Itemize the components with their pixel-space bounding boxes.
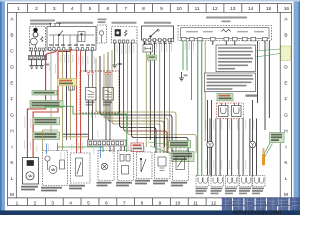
label Ra [196,188,208,195]
wire N10 pin1 to coil [144,42,146,45]
wire khaki left pair a [42,130,44,151]
note box upper [216,45,256,72]
wire code labels [24,42,267,169]
orange highlight wire [262,148,265,166]
label Re [252,188,264,195]
svg-text:E: E [10,81,13,87]
svg-text:11: 11 [195,6,200,12]
svg-text:12: 12 [211,200,217,206]
connector box Re [253,176,266,187]
svg-text:B: B [10,33,13,39]
terminal circle 43a [207,141,213,147]
svg-text:15: 15 [266,6,272,12]
N10 pin labels [143,43,172,45]
label A7-3 [153,180,168,185]
wires W02 to connector [32,51,44,55]
label Rd [239,188,251,195]
ground 31 trio [29,60,49,69]
title text hazard switch panel [206,17,247,23]
tag mid right 2 [172,152,195,162]
svg-text:L: L [11,176,14,182]
terminal circle 43b [249,141,255,147]
svg-text:L: L [285,176,288,182]
connector strip T below W02 [29,55,47,59]
svg-text:11: 11 [193,200,198,206]
cluster internal marks [186,31,264,32]
svg-text:www.qcwxjs.com: www.qcwxjs.com [232,209,281,215]
wire khaki c5 [204,41,206,142]
highlight box connector pair [217,103,244,119]
svg-text:F: F [11,97,14,103]
wire khaki left pair b [43,129,58,131]
component box W11/1 [97,25,107,43]
svg-text:8: 8 [142,6,145,12]
component box switch S1 [98,151,114,181]
svg-text:D: D [284,65,288,71]
wire green low [58,147,104,152]
W02 pin row [30,48,44,51]
labels K relays [86,102,113,106]
component box F-connector [71,153,91,183]
connector strip mid [88,140,127,146]
label F-connector [69,185,85,190]
component inline connector [69,86,74,91]
wire gray [50,51,52,141]
svg-text:14: 14 [248,6,254,12]
wire khaki straight mid [136,43,138,150]
svg-text:6: 6 [106,6,109,12]
relay K1 [86,75,97,100]
note box lower [205,73,256,92]
tag K29 red [131,143,144,152]
svg-text:2: 2 [35,6,38,12]
tag ground point note [33,132,60,139]
wire red washer 1 [27,51,56,159]
wire ladder pairs [208,100,257,176]
wire link khaki [63,136,88,138]
wire black c11 [268,41,270,118]
label P2-4 [171,182,187,187]
connector box Rc [226,176,239,187]
W11/3 pin boxes [113,40,134,43]
svg-text:3: 3 [51,200,54,206]
svg-text:10: 10 [177,6,183,12]
tag mid right 1 [169,141,191,148]
wire blue left [46,144,48,155]
wire red pair left [76,51,78,154]
wire bus black 2 [100,56,172,153]
svg-text:G: G [284,112,288,118]
tag W16 yellow [58,79,77,86]
svg-text:G: G [10,112,14,118]
plug X1 [219,103,229,117]
label W02 washer pump [30,20,55,25]
wire red washer 2 [33,49,70,158]
svg-text:3: 3 [53,6,56,12]
svg-text:1: 1 [16,200,19,206]
component box N10 [142,26,174,40]
wires N10 down [153,42,155,147]
svg-text:B: B [284,33,287,39]
wire coil down black [149,52,151,140]
wire coil down khaki [145,52,147,147]
svg-text:C: C [10,49,14,55]
wire bus black 9 [132,43,188,153]
svg-text:12: 12 [212,6,218,12]
svg-text:7: 7 [123,200,126,206]
red pin marks K [87,73,111,75]
wire link dark [63,133,88,135]
svg-text:5: 5 [87,200,90,206]
wire black c10 [264,41,266,130]
wire stub c7 [225,41,227,45]
svg-text:6: 6 [105,200,108,206]
wire green route [44,106,127,152]
label W11/3 relay plate [112,22,137,24]
wire bus olive 4 [108,52,164,153]
N10 pin boxes [143,39,174,42]
component box M5-8 washer motors [43,151,68,186]
component box washer control relay [47,27,96,51]
wire green long c3 [197,41,199,176]
connector box Ra [196,176,209,187]
svg-text:1: 1 [17,6,20,12]
wire khaki A [62,51,64,151]
svg-text:7: 7 [124,6,127,12]
tag axle point [32,91,57,96]
wire W11/3 to ground [114,43,116,62]
svg-text:E: E [284,81,287,87]
svg-text:10: 10 [175,200,181,206]
leader lines to C cell [256,49,281,57]
component box F-plate [118,151,134,181]
svg-text:13: 13 [230,6,236,12]
component box P2-4 relay [173,151,189,181]
svg-text:9: 9 [160,6,163,12]
wire bus maroon 7 [124,43,167,153]
tag no-wiring note [30,101,63,108]
wire blue mid [99,146,101,158]
wire bus khaki 1 [96,58,176,153]
svg-text:8: 8 [141,200,144,206]
svg-text:D: D [10,65,14,71]
wire green stub [57,143,59,151]
washer relay pin boxes [49,48,94,51]
component box W1-2 wiper motor [23,158,39,185]
highlight box relays K [80,71,119,113]
wire stub c8 [234,41,236,45]
wire maroon feed [85,51,87,73]
label F-plate [116,182,132,187]
wire black c9 [257,41,259,103]
tag 70-8 trigger [217,94,233,101]
svg-text:I: I [285,144,286,150]
ground 31 under W11/3 [112,62,122,68]
wire green c3b [191,41,193,100]
component box instrument cluster N28 [178,26,272,41]
svg-text:2: 2 [34,200,37,206]
pins atop washer control [49,24,61,27]
tag right edge [270,133,285,143]
wires K relays down [89,100,111,140]
wire green c2 [186,41,188,71]
label Rb [211,188,223,195]
wire bus khaki 8 [128,43,197,153]
svg-text:M: M [10,192,14,198]
watermark qcwxjs [222,197,300,210]
ground 31 right of N10 wires [179,72,187,81]
leader lines orange to tag [264,141,273,157]
label Rc [225,188,237,195]
label M5-8 [41,187,62,192]
svg-text:4: 4 [69,200,72,206]
leader to mid tags [148,142,172,154]
label N10 module [144,22,171,24]
wire bus khaki 5 [112,50,160,153]
cluster pin connectors [182,37,268,41]
wire red pair right [80,51,82,154]
svg-text:H: H [284,128,288,134]
component box W11/3 [112,27,138,44]
svg-text:4: 4 [71,6,74,12]
wire black feed K29 [91,51,93,73]
washer relay pin labels [49,44,95,46]
svg-text:5: 5 [89,6,92,12]
component box A7-3 pump [155,152,171,179]
relay coil box 86-85 [143,45,153,53]
connector box Rb [211,176,224,187]
svg-text:M: M [284,192,288,198]
label washer control module [56,22,93,24]
svg-text:16: 16 [284,6,290,12]
wire black A [66,51,68,141]
svg-text:F: F [285,97,288,103]
tag 30 small [148,55,157,60]
component box W02 [30,27,46,52]
wire bus khaki 3 [104,54,168,153]
plug X2 [232,103,242,117]
relay K2 [103,75,114,100]
tag paint note [33,118,60,125]
label F23-8 [135,180,150,185]
label W11/1 [98,19,107,24]
svg-text:H: H [10,128,14,134]
label W1-2 [21,186,38,191]
wire green long c4 [201,41,203,176]
wire bus black 6 [120,43,156,153]
wires below strip [110,146,125,152]
connector box Rd [240,176,253,187]
component box F23-8 [137,152,153,179]
wire green c1 [182,41,184,70]
wire stub c6 [212,41,214,45]
label power source [246,95,258,97]
svg-text:9: 9 [159,200,162,206]
wire khaki B [70,51,72,141]
label switch S1 [97,182,112,187]
highlight row C marker [281,46,291,61]
svg-text:I: I [11,144,12,150]
